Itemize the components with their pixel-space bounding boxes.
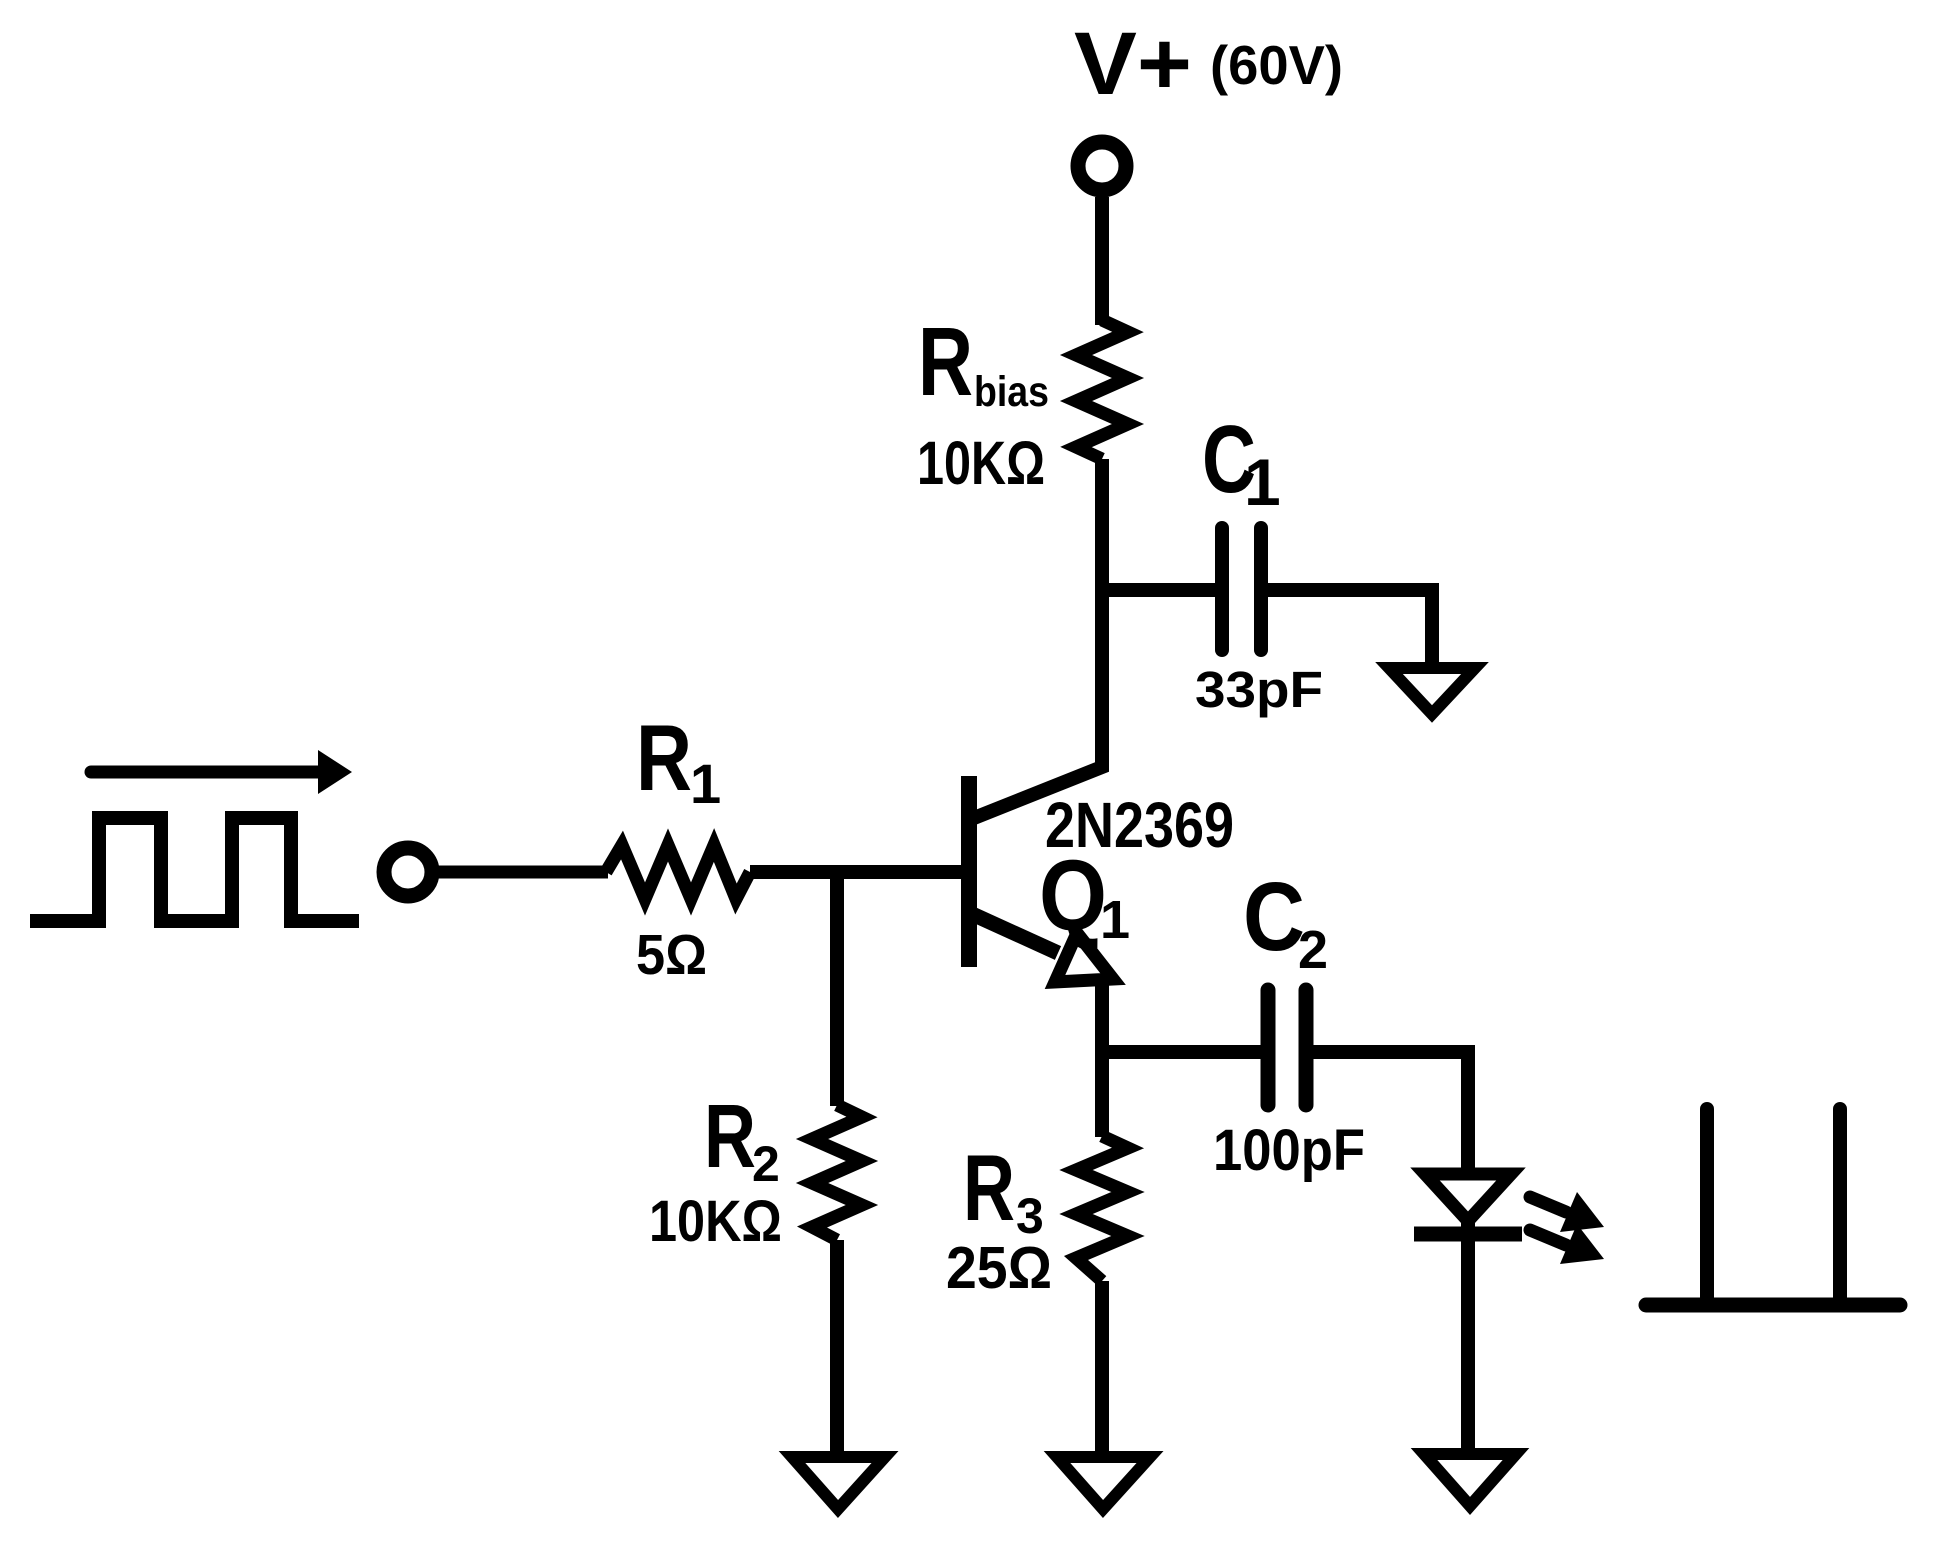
svg-text:V+: V+: [1074, 13, 1192, 113]
LED light emission arrow 1: [1530, 1192, 1604, 1232]
svg-text:1: 1: [1244, 445, 1281, 519]
terminal V+: [1078, 142, 1126, 190]
wire input terminal to R1: [433, 866, 608, 879]
svg-text:100pF: 100pF: [1213, 1118, 1365, 1183]
capacitor C2 right plate: [1299, 990, 1314, 1105]
svg-text:R: R: [918, 307, 973, 416]
input pulse arrow: [91, 766, 330, 779]
ground for C1: [1389, 668, 1475, 714]
svg-text:C: C: [1243, 862, 1305, 971]
resistor R3: [1076, 1136, 1128, 1281]
svg-text:10KΩ: 10KΩ: [917, 429, 1045, 497]
transistor Q1 emitter arrowhead: [1055, 933, 1113, 982]
wire R2 to ground: [830, 1240, 844, 1458]
wire LED to ground: [1461, 1221, 1475, 1458]
wire emitter node to C2: [1095, 1045, 1262, 1059]
output pulse waveform baseline: [1646, 1298, 1900, 1313]
input pulse arrow head: [318, 750, 352, 794]
capacitor C1 right plate: [1254, 528, 1268, 650]
svg-text:bias: bias: [974, 368, 1049, 416]
LED light emission arrow 2: [1530, 1224, 1604, 1264]
svg-text:1: 1: [1100, 890, 1130, 950]
transistor Q1 emitter diagonal: [970, 913, 1058, 953]
wire R3 to ground: [1095, 1281, 1109, 1458]
wire R1 to base: [750, 865, 962, 879]
svg-text:10KΩ: 10KΩ: [649, 1189, 782, 1254]
svg-text:2: 2: [1298, 920, 1328, 980]
svg-text:Q: Q: [1039, 840, 1107, 952]
wire emitter down to R3: [1095, 975, 1109, 1137]
input terminal: [384, 848, 432, 896]
resistor Rbias: [1076, 320, 1128, 459]
svg-text:2: 2: [752, 1136, 780, 1192]
resistor R2: [812, 1105, 862, 1240]
svg-text:(60V): (60V): [1210, 34, 1343, 96]
capacitor C2 left plate: [1261, 990, 1276, 1105]
svg-text:1: 1: [690, 752, 721, 815]
svg-text:R: R: [704, 1087, 756, 1187]
svg-text:5Ω: 5Ω: [636, 923, 707, 987]
ground for LED: [1424, 1454, 1516, 1506]
wire C2 to LED corner: [1313, 1052, 1468, 1175]
wire C1 to ground corner: [1268, 590, 1432, 668]
wire base node down to R2: [830, 872, 844, 1106]
transistor Q1 base bar: [961, 776, 977, 967]
wire V+ to Rbias: [1095, 197, 1109, 325]
input square wave symbol: [30, 818, 359, 921]
wire Rbias to collector node: [969, 459, 1102, 820]
LED D1 anode triangle: [1425, 1174, 1511, 1221]
svg-text:25Ω: 25Ω: [946, 1235, 1052, 1301]
LED D1 cathode bar: [1414, 1227, 1522, 1242]
svg-text:33pF: 33pF: [1195, 661, 1323, 718]
output pulse waveform spike 2: [1833, 1109, 1847, 1300]
svg-text:R: R: [636, 705, 692, 810]
ground for R2: [792, 1457, 885, 1509]
capacitor C1 left plate: [1215, 528, 1229, 650]
ground for R3: [1057, 1457, 1150, 1509]
resistor R1: [606, 845, 750, 899]
wire collector node to C1: [1095, 583, 1216, 597]
svg-text:R: R: [963, 1135, 1015, 1240]
output pulse waveform spike 1: [1700, 1109, 1714, 1300]
